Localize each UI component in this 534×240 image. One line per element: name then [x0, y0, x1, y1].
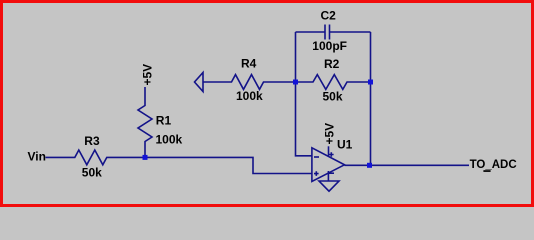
svg-text:C2: C2: [321, 8, 337, 22]
svg-text:100pF: 100pF: [312, 39, 347, 53]
svg-text:50k: 50k: [323, 90, 343, 104]
svg-text:R1: R1: [156, 114, 172, 128]
svg-text:+5V: +5V: [140, 64, 154, 86]
svg-text:TO_ADC: TO_ADC: [470, 159, 517, 171]
svg-text:100k: 100k: [236, 89, 263, 103]
svg-text:100k: 100k: [156, 133, 183, 147]
svg-text:U1: U1: [337, 138, 353, 152]
svg-text:+5V: +5V: [323, 123, 337, 145]
svg-text:Vin: Vin: [28, 149, 46, 163]
svg-text:R3: R3: [84, 134, 100, 148]
svg-text:R2: R2: [324, 57, 340, 71]
svg-text:50k: 50k: [82, 165, 102, 179]
svg-text:R4: R4: [241, 56, 257, 70]
